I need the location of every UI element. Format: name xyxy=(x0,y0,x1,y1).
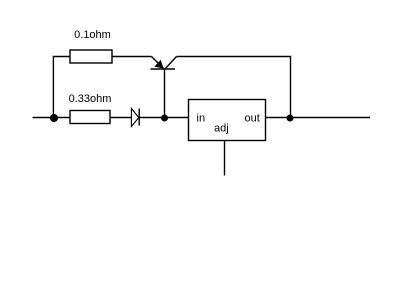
wire output right xyxy=(291,117,371,119)
svg-text:0.33ohm: 0.33ohm xyxy=(69,93,112,105)
wire adj pin down xyxy=(224,141,226,176)
wire diode to node B xyxy=(139,117,164,119)
wire R2 to diode xyxy=(110,117,131,119)
diode D1 xyxy=(131,109,139,127)
collector diagonal xyxy=(165,57,177,70)
svg-text:adj: adj xyxy=(214,123,229,135)
emitter diagonal xyxy=(152,57,164,69)
wire base down to node B xyxy=(164,69,166,118)
resistor R1 body xyxy=(70,50,112,63)
diode cathode bar xyxy=(138,109,140,126)
node A junction dot xyxy=(50,114,58,122)
wire node B to regulator in xyxy=(165,117,189,119)
node B junction dot xyxy=(161,115,168,122)
base bar xyxy=(151,68,176,70)
transistor Q1 (PNP) xyxy=(151,57,177,70)
wire R1 to Q1 emitter xyxy=(112,56,152,58)
node C junction dot xyxy=(287,115,294,122)
resistor R2 body xyxy=(70,111,110,124)
svg-text:0.1ohm: 0.1ohm xyxy=(74,29,111,41)
regulator U1 box xyxy=(189,100,266,141)
emitter arrowhead xyxy=(155,61,163,69)
wire collector to right corner and down xyxy=(177,57,291,119)
svg-text:out: out xyxy=(245,112,260,124)
svg-text:in: in xyxy=(197,112,206,124)
wire input left xyxy=(33,117,71,119)
wire node A up to R1 xyxy=(53,57,70,119)
wire regulator out to node C xyxy=(266,117,291,119)
diode triangle xyxy=(131,109,138,127)
